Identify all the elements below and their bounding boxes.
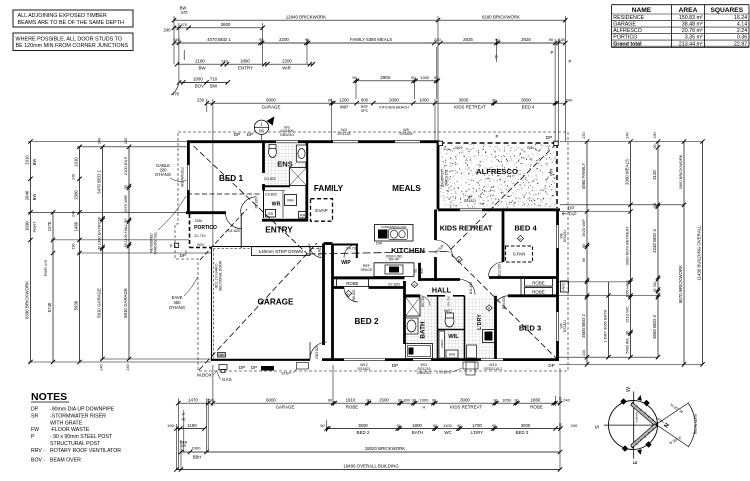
bath shower	[406, 297, 421, 316]
svg-text:PORTICO: PORTICO	[613, 35, 637, 41]
svg-text:2180: 2180	[195, 219, 203, 223]
svg-text:1910: 1910	[25, 155, 30, 165]
wall: bath/wc divider	[437, 296, 439, 359]
svg-text:90: 90	[98, 217, 102, 221]
svg-text:90: 90	[514, 398, 518, 402]
svg-text:90: 90	[124, 185, 128, 189]
svg-text:6000: 6000	[266, 397, 276, 402]
svg-text:-STORMWATER RISER: -STORMWATER RISER	[50, 414, 106, 420]
svg-text:GD2.820: GD2.820	[315, 345, 319, 359]
svg-text:-FLOOR WASTE: -FLOOR WASTE	[50, 427, 90, 433]
left dim col 2	[52, 212, 54, 362]
right dim col 2	[608, 296, 610, 358]
svg-text:190: 190	[167, 423, 174, 428]
svg-text:3600 BED 2: 3600 BED 2	[581, 314, 586, 338]
2 steps at laundry	[463, 362, 478, 369]
svg-text:D1.710: D1.710	[195, 234, 206, 238]
wall: wc/wil divider	[438, 329, 465, 331]
svg-text:BED 4: BED 4	[522, 104, 535, 109]
svg-text:DS1218: DS1218	[338, 132, 351, 136]
svg-text:2200: 2200	[279, 37, 289, 42]
bed1 door arc	[241, 197, 257, 213]
svg-text:- 90 x 90mm STEEL POST: - 90 x 90mm STEEL POST	[50, 434, 113, 440]
compass diamonds	[621, 399, 627, 405]
svg-text:1090: 1090	[25, 221, 30, 231]
svg-text:DP: DP	[568, 206, 574, 211]
wall: right side bed4/bed3	[556, 209, 559, 225]
svg-text:DS1821: DS1821	[563, 320, 567, 332]
svg-text:1050: 1050	[502, 397, 512, 402]
svg-text:90: 90	[411, 75, 416, 80]
svg-text:5910 GARAGE: 5910 GARAGE	[123, 288, 128, 318]
svg-text:213.44 m²: 213.44 m²	[679, 41, 703, 47]
extension lines top	[173, 16, 175, 64]
kitchen back bench	[374, 262, 414, 264]
ens toilet	[269, 147, 277, 158]
dim row: 90 2900 90 1000 90 (kitchen/meals)	[355, 80, 438, 82]
svg-text:12840 BRICKWORK: 12840 BRICKWORK	[286, 14, 327, 19]
svg-text:ENTRY: ENTRY	[265, 226, 293, 235]
svg-text:GAS: GAS	[222, 377, 232, 382]
svg-text:3000: 3000	[521, 423, 531, 428]
meter black rect	[261, 366, 274, 371]
svg-text:PORT: PORT	[32, 221, 37, 233]
svg-text:SPC: SPC	[361, 109, 369, 113]
wall: alfresco bottom	[438, 208, 460, 211]
svg-text:SECTIONAL DOOR: SECTIONAL DOOR	[218, 260, 222, 291]
svg-text:SQUARES: SQUARES	[710, 7, 743, 14]
svg-text:240: 240	[72, 174, 76, 180]
svg-text:M.BOX: M.BOX	[197, 373, 212, 378]
bottom dim row 4: 19490 overall	[176, 469, 560, 471]
svg-text:90: 90	[582, 258, 586, 262]
svg-text:1910: 1910	[74, 157, 79, 167]
ens basin	[297, 145, 307, 162]
svg-text:90: 90	[653, 288, 657, 292]
svg-text:DS1821: DS1821	[358, 367, 371, 371]
svg-text:P: P	[551, 50, 554, 55]
svg-text:1100: 1100	[443, 423, 452, 428]
svg-text:470: 470	[180, 22, 187, 27]
svg-text:850: 850	[420, 268, 424, 274]
roof hip A	[194, 146, 308, 254]
svg-text:BE 120mm MIN FROM CORNER JUNCT: BE 120mm MIN FROM CORNER JUNCTIONS	[16, 43, 129, 49]
svg-text:BBH: BBH	[193, 454, 202, 459]
svg-text:2000: 2000	[389, 97, 399, 102]
svg-text:RESIDENCE: RESIDENCE	[613, 15, 644, 21]
svg-text:38.48 m²: 38.48 m²	[682, 22, 703, 28]
svg-text:3470 BED 1: 3470 BED 1	[97, 170, 102, 194]
svg-text:140mm STEP DOWN: 140mm STEP DOWN	[259, 249, 303, 254]
svg-text:BOV: BOV	[455, 146, 463, 150]
svg-text:0.36: 0.36	[737, 35, 747, 41]
wall: bottom main	[322, 358, 344, 361]
svg-text:ALL ADJOINING EXPOSED TIMBER: ALL ADJOINING EXPOSED TIMBER	[18, 13, 107, 19]
svg-text:3600: 3600	[221, 22, 231, 27]
bath vanity	[406, 318, 419, 334]
wall: kitchen right / kids left	[434, 210, 437, 241]
svg-text:GARAGE: GARAGE	[276, 404, 295, 409]
svg-text:H: H	[423, 404, 426, 409]
svg-text:6180 BRICKWORK: 6180 BRICKWORK	[482, 14, 520, 19]
svg-text:KITCHEN BENCH: KITCHEN BENCH	[379, 105, 409, 109]
bov over bed1	[187, 193, 262, 195]
svg-text:BW: BW	[198, 65, 206, 70]
note box: adjoining timber beams	[13, 10, 133, 27]
svg-text:1560: 1560	[74, 190, 79, 200]
rrv diamonds	[345, 290, 351, 296]
compass rays	[656, 403, 689, 425]
left dim col 3	[79, 147, 81, 362]
svg-text:WR: WR	[272, 202, 281, 208]
svg-text:3000: 3000	[521, 97, 531, 102]
svg-text:AREA: AREA	[679, 7, 698, 14]
svg-text:150: 150	[559, 37, 566, 42]
svg-text:DP: DP	[251, 365, 257, 370]
wall: wc top	[438, 295, 446, 297]
svg-text:150: 150	[653, 132, 657, 138]
svg-text:1620 WIP: 1620 WIP	[581, 219, 586, 237]
compass chevron bars	[631, 402, 657, 426]
svg-text:EVAP: EVAP	[315, 208, 327, 214]
svg-text:3060 BED 3: 3060 BED 3	[652, 315, 657, 339]
portico dashed outline	[189, 214, 191, 248]
svg-text:240: 240	[559, 423, 563, 429]
svg-text:summer: summer	[635, 412, 639, 423]
svg-text:510: 510	[653, 282, 657, 288]
wc toilet	[445, 315, 454, 327]
svg-text:FAMILY: FAMILY	[314, 184, 344, 193]
bottom dim row 2	[176, 428, 204, 430]
svg-text:KIDS RETREAT: KIDS RETREAT	[440, 224, 493, 233]
svg-text:90: 90	[433, 424, 437, 428]
svg-text:DP: DP	[548, 363, 554, 368]
step down label box	[252, 247, 311, 256]
svg-text:KITCHEN: KITCHEN	[391, 246, 425, 255]
wall: bed3 top	[508, 294, 558, 297]
dim row: 1000 710 bov bw	[179, 81, 228, 83]
wall: bed4/kids divider	[502, 210, 505, 263]
wir shelves	[264, 190, 286, 192]
svg-text:1000: 1000	[192, 446, 202, 451]
svg-text:600: 600	[404, 398, 410, 402]
svg-text:3000: 3000	[459, 97, 469, 102]
bottom dim row 3: 18020 brickwork	[181, 451, 560, 453]
svg-text:D11.820: D11.820	[469, 282, 473, 294]
svg-text:230: 230	[197, 97, 205, 102]
roof hip D	[449, 252, 559, 361]
svg-text:ROBE: ROBE	[346, 281, 359, 286]
svg-text:2040: 2040	[25, 190, 30, 200]
svg-text:PORTICO: PORTICO	[194, 225, 217, 231]
svg-text:SPACE: SPACE	[361, 268, 374, 272]
section marker 1/06	[254, 120, 268, 134]
svg-text:90: 90	[457, 424, 461, 428]
svg-text:BED 3: BED 3	[519, 324, 541, 333]
svg-text:D4.720: D4.720	[347, 247, 358, 251]
svg-text:BEAM OVER: BEAM OVER	[50, 457, 81, 463]
svg-text:1000: 1000	[193, 77, 203, 82]
svg-text:8070 BRICKWORK: 8070 BRICKWORK	[678, 265, 683, 303]
svg-text:FAMILY 6380 MEALS: FAMILY 6380 MEALS	[350, 37, 392, 42]
svg-text:240: 240	[124, 138, 128, 144]
svg-text:190: 190	[72, 244, 76, 250]
svg-text:1500: 1500	[379, 397, 389, 402]
svg-text:D7.820: D7.820	[388, 283, 400, 287]
svg-text:240: 240	[653, 203, 657, 209]
svg-text:Grand total: Grand total	[613, 41, 642, 47]
svg-text:BOV: BOV	[550, 168, 554, 176]
right dim col 5	[683, 142, 685, 365]
svg-text:3240 BED 4: 3240 BED 4	[652, 229, 657, 253]
svg-text:4.14: 4.14	[737, 22, 747, 28]
svg-text:SR: SR	[31, 414, 38, 420]
wil shelves	[439, 331, 445, 358]
eave overhang dashed outline	[175, 132, 568, 371]
svg-text:5910 GARAGE: 5910 GARAGE	[97, 288, 102, 318]
right dim col 4	[657, 142, 659, 358]
svg-text:240: 240	[98, 138, 102, 144]
svg-text:240: 240	[571, 423, 578, 428]
bed2 wall top	[333, 286, 345, 289]
svg-text:BOV: BOV	[195, 84, 204, 89]
svg-text:DW: DW	[376, 242, 383, 246]
svg-text:BED 3: BED 3	[516, 430, 529, 435]
svg-text:1300 ENTRY: 1300 ENTRY	[97, 221, 102, 245]
svg-text:2900: 2900	[380, 75, 390, 80]
svg-text:P: P	[31, 434, 35, 440]
svg-text:D10.820: D10.820	[502, 297, 506, 310]
bottom vertical connectors	[177, 399, 179, 470]
wall: hall top left (robe row)	[333, 276, 405, 279]
svg-text:BPM: BPM	[449, 353, 456, 357]
svg-text:P: P	[569, 59, 572, 64]
right dim col 3	[630, 142, 632, 358]
svg-text:DP: DP	[239, 365, 245, 370]
svg-text:90: 90	[98, 246, 102, 250]
svg-text:1270: 1270	[47, 221, 52, 231]
svg-text:S.PAN: S.PAN	[513, 252, 525, 257]
svg-text:150.83 m²: 150.83 m²	[679, 15, 703, 21]
svg-text:ROBE: ROBE	[532, 289, 545, 294]
svg-text:90: 90	[328, 397, 333, 402]
evap cooler dashed	[311, 199, 333, 222]
svg-text:D8.820: D8.820	[352, 290, 356, 301]
ldry bench	[467, 345, 477, 358]
svg-text:1190: 1190	[187, 423, 197, 428]
svg-text:19490 OVERALL BUILDING: 19490 OVERALL BUILDING	[343, 464, 399, 469]
svg-text:90: 90	[320, 423, 325, 428]
svg-text:1570 WIR: 1570 WIR	[123, 195, 128, 213]
wip walls	[331, 244, 334, 280]
bed4 span dashed	[506, 246, 533, 262]
svg-text:TAP: TAP	[568, 212, 577, 217]
svg-text:NOTES: NOTES	[31, 391, 67, 403]
svg-text:ROTARY ROOF VENTILATOR: ROTARY ROOF VENTILATOR	[50, 448, 121, 454]
note box: door studs	[13, 33, 133, 51]
svg-text:5930: 5930	[74, 300, 79, 310]
svg-text:2925: 2925	[521, 37, 531, 42]
svg-text:470: 470	[172, 92, 180, 97]
wall: kids bottom / hall top	[420, 278, 461, 281]
svg-text:(WRD) 150: (WRD) 150	[444, 170, 448, 186]
svg-text:GARAGE: GARAGE	[258, 298, 294, 307]
svg-text:E: E	[633, 460, 639, 464]
svg-text:HALL: HALL	[432, 286, 452, 295]
svg-text:1200: 1200	[339, 97, 349, 102]
wall: bed1 right / ens left	[262, 141, 265, 174]
svg-text:22.97: 22.97	[734, 41, 747, 47]
entry door arc	[226, 213, 242, 229]
svg-text:GARAGE: GARAGE	[613, 22, 636, 28]
alfresco posts	[438, 141, 442, 145]
svg-text:3360 MEALS: 3360 MEALS	[625, 159, 630, 185]
svg-text:16.24: 16.24	[734, 15, 747, 21]
svg-text:1470: 1470	[188, 397, 198, 402]
area table	[612, 4, 750, 6]
svg-text:BOV: BOV	[527, 146, 535, 150]
svg-text:WIR: WIR	[282, 65, 291, 70]
right horiz connectors	[560, 141, 703, 143]
svg-text:90: 90	[549, 37, 554, 42]
svg-text:900: 900	[361, 97, 369, 102]
roof hip C	[449, 144, 557, 252]
svg-text:O'HANG: O'HANG	[169, 305, 185, 310]
svg-text:STEP: STEP	[281, 372, 291, 376]
svg-text:2180: 2180	[195, 58, 205, 63]
svg-text:1700: 1700	[472, 423, 482, 428]
svg-text:90: 90	[182, 418, 186, 422]
svg-text:90: 90	[124, 243, 128, 247]
svg-text:DP: DP	[31, 407, 39, 413]
svg-text:DP: DP	[392, 363, 398, 368]
svg-text:1000: 1000	[419, 97, 429, 102]
kitchen island bench	[375, 225, 414, 242]
wall: meals right / alfresco left	[437, 141, 440, 210]
bed2 door arc	[344, 288, 359, 303]
bed2 robe	[337, 279, 369, 287]
svg-text:ROBE: ROBE	[346, 404, 359, 409]
svg-text:4950 FAMILY: 4950 FAMILY	[581, 163, 586, 189]
svg-text:240: 240	[563, 397, 570, 402]
svg-text:1890: 1890	[240, 58, 250, 63]
svg-text:90: 90	[653, 145, 657, 149]
kids door arc	[460, 280, 475, 295]
bed4 door arc	[489, 262, 504, 277]
alfresco stippled slab	[440, 144, 557, 208]
garage nib	[218, 353, 226, 358]
wall: ens/wir bottom	[264, 185, 291, 187]
portico valley	[200, 209, 247, 260]
svg-text:90: 90	[328, 97, 333, 102]
pier 470 leader	[171, 84, 179, 95]
svg-text:ROBE: ROBE	[532, 280, 545, 285]
svg-text:DP: DP	[247, 132, 253, 137]
svg-text:ALFRESCO: ALFRESCO	[476, 167, 518, 176]
left dim col 1 (6390 brickwork)	[30, 142, 32, 363]
svg-text:240: 240	[126, 364, 130, 370]
svg-text:BOV -: BOV -	[31, 457, 45, 463]
meter box	[219, 365, 227, 370]
svg-text:470: 470	[181, 10, 189, 15]
svg-text:ROBE: ROBE	[530, 404, 543, 409]
svg-text:P: P	[170, 244, 173, 249]
svg-text:DS1821: DS1821	[464, 199, 476, 203]
svg-text:3500: 3500	[358, 423, 368, 428]
svg-text:90: 90	[398, 398, 402, 402]
svg-text:WIP: WIP	[341, 260, 351, 266]
RA box	[299, 212, 308, 219]
svg-text:240: 240	[72, 211, 76, 217]
svg-text:DP: DP	[546, 135, 552, 140]
svg-text:1460: 1460	[74, 221, 79, 231]
svg-text:BED 2: BED 2	[357, 430, 370, 435]
svg-text:90: 90	[414, 269, 418, 273]
dim row: garage wip kitchen bench kids retreat bed4	[207, 102, 566, 104]
compass arrows small	[638, 396, 642, 401]
svg-text:90: 90	[626, 331, 630, 335]
svg-text:90: 90	[397, 424, 401, 428]
svg-text:240: 240	[100, 364, 104, 370]
wall: bath top	[405, 294, 421, 297]
MH box	[285, 195, 297, 206]
svg-text:90: 90	[124, 219, 128, 223]
SS box	[266, 210, 276, 218]
garage internal step door GD2.820	[310, 342, 327, 359]
door D4.720 wip	[344, 245, 357, 258]
bed2 left wall	[331, 278, 334, 359]
svg-text:240: 240	[221, 58, 228, 63]
svg-text:BATH: BATH	[412, 430, 423, 435]
svg-text:710: 710	[210, 77, 218, 82]
svg-text:WIP: WIP	[340, 104, 348, 109]
svg-text:90: 90	[492, 97, 497, 102]
bed3 door arc	[495, 296, 509, 310]
svg-text:20.76 m²: 20.76 m²	[682, 28, 703, 34]
svg-text:ALFRESCO: ALFRESCO	[613, 28, 642, 34]
svg-text:3.35 m²: 3.35 m²	[685, 35, 703, 41]
svg-text:D1.820: D1.820	[228, 229, 240, 233]
svg-text:240: 240	[626, 132, 630, 138]
garage walls	[211, 247, 213, 361]
exterior wall: front/top	[187, 140, 276, 143]
bath tub	[406, 344, 433, 359]
svg-text:1000: 1000	[420, 75, 430, 80]
svg-text:2100 ENS: 2100 ENS	[123, 157, 128, 176]
exterior wall: left (bed1)	[187, 141, 190, 166]
svg-text:LINEN: LINEN	[440, 340, 444, 349]
svg-text:STRUCTURAL POST: STRUCTURAL POST	[50, 441, 101, 447]
svg-text:6390 BRICKWORK: 6390 BRICKWORK	[25, 281, 30, 319]
right dim col 6	[702, 142, 704, 365]
svg-text:WC: WC	[444, 430, 451, 435]
svg-text:90: 90	[493, 398, 497, 402]
bath door arc	[420, 296, 430, 306]
wet area tiles	[406, 297, 436, 358]
svg-text:5460 W/L: 5460 W/L	[626, 337, 630, 353]
svg-text:D5.820: D5.820	[318, 246, 322, 257]
svg-text:DS1621: DS1621	[563, 230, 567, 242]
svg-text:90: 90	[352, 75, 357, 80]
svg-text:90: 90	[582, 244, 586, 248]
step at garage door	[297, 363, 309, 370]
svg-text:FW: FW	[31, 427, 39, 433]
ens shower	[290, 168, 307, 186]
roof ridge	[308, 252, 449, 255]
wall: wir bottom	[262, 219, 308, 222]
svg-text:DP: DP	[234, 132, 240, 137]
svg-text:FC/DR/MW/HC/ASP: FC/DR/MW/HC/ASP	[381, 225, 407, 229]
